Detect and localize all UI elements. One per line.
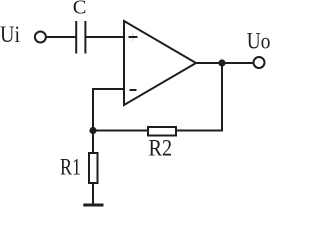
wire — [92, 183, 94, 204]
op-amp — [124, 21, 196, 105]
input terminal Ui — [35, 32, 46, 43]
wire — [177, 63, 222, 131]
resistor R1 — [89, 153, 98, 183]
wire — [93, 89, 124, 131]
svg-text:R1: R1 — [60, 155, 81, 180]
node A (R1/R2/feedback junction) — [89, 127, 96, 134]
ground — [83, 204, 103, 207]
svg-text:C: C — [73, 0, 87, 19]
svg-text:R2: R2 — [149, 136, 173, 161]
resistor R2 — [148, 127, 176, 136]
op-amp + input mark (pin 3, faint vertical stroke) — [129, 33, 138, 41]
op-amp - input mark (pin 2) — [130, 89, 137, 91]
svg-text:Ui: Ui — [0, 22, 20, 47]
capacitor C — [76, 21, 85, 54]
wire — [47, 36, 76, 38]
wire — [92, 134, 94, 153]
wire — [196, 62, 253, 64]
wire — [93, 130, 147, 132]
svg-text:Uo: Uo — [247, 29, 271, 54]
wire — [85, 36, 124, 38]
output terminal Uo — [254, 57, 265, 68]
node B (output junction) — [218, 59, 225, 66]
